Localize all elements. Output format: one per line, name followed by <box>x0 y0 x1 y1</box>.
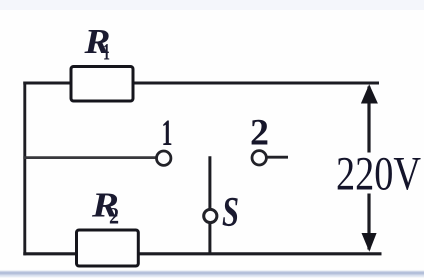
arrowhead down <box>362 233 377 252</box>
resistor R2 <box>77 230 139 266</box>
wire: top wire left segment <box>23 82 72 85</box>
wire: middle wire to terminal 1 <box>23 156 156 159</box>
wire: top wire right segment <box>132 82 380 85</box>
220V arrow lower line <box>367 194 370 250</box>
terminal 2 circle <box>252 151 266 165</box>
svg-text:220V: 220V <box>336 148 421 201</box>
wire: left vertical wire <box>23 82 26 256</box>
faint top tint band <box>0 0 424 10</box>
svg-text:2: 2 <box>250 113 269 154</box>
svg-text:2: 2 <box>109 204 119 229</box>
svg-text:1: 1 <box>162 113 173 154</box>
terminal 1 circle <box>157 151 171 165</box>
arrowhead up <box>361 84 378 103</box>
switch S circle <box>204 209 217 222</box>
wire: terminal 2 stub <box>267 156 288 159</box>
svg-text:S: S <box>222 190 239 236</box>
wire: bottom wire left segment <box>23 252 76 255</box>
wire: bottom wire right segment <box>137 252 382 255</box>
wire: switch vertical wire <box>208 156 211 254</box>
svg-text:1: 1 <box>103 40 110 65</box>
220V arrow upper line <box>367 87 370 153</box>
faint bottom blue band <box>0 271 424 277</box>
resistor R1 <box>71 67 133 102</box>
